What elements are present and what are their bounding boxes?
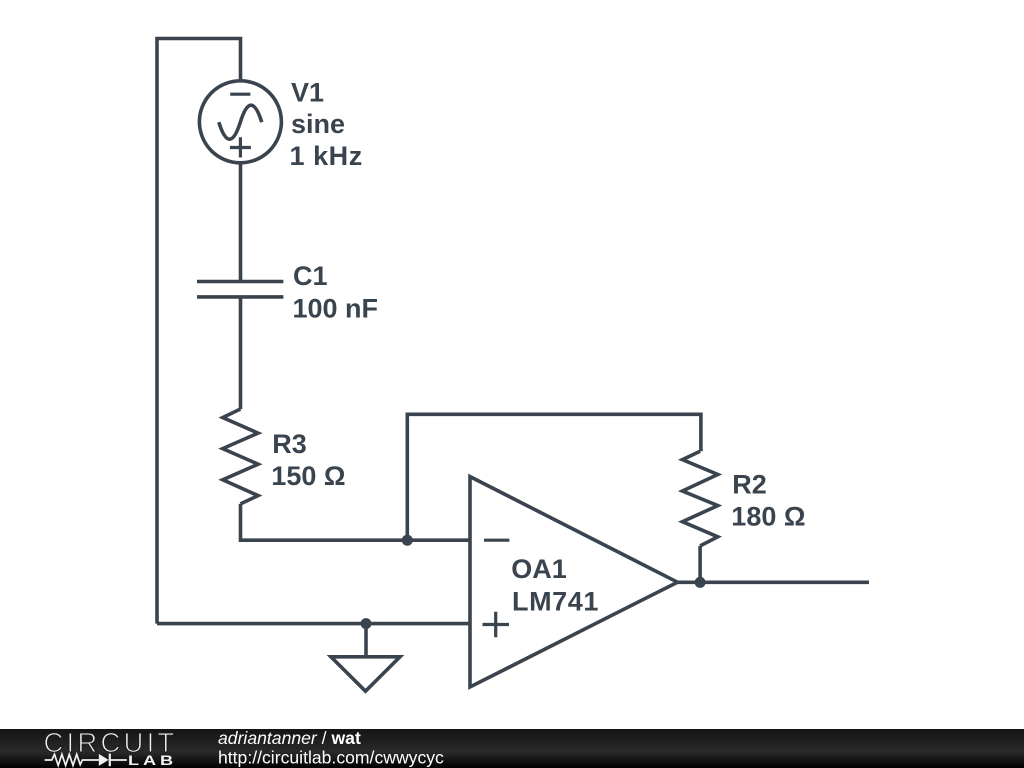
svg-text:1 kHz: 1 kHz [290, 141, 363, 171]
wire C1 bottom to R3 top [239, 298, 243, 409]
wire V1 bottom to C1 top [239, 162, 243, 280]
svg-text:LAB: LAB [128, 753, 177, 768]
footer attribution text [218, 728, 444, 768]
svg-text:R3: R3 [272, 429, 307, 459]
CircuitLab logo resistor-diode glyph [45, 754, 127, 767]
svg-text:sine: sine [291, 109, 345, 139]
svg-text:V1: V1 [291, 78, 324, 108]
op-amp inverting marker [484, 539, 509, 542]
wire output [678, 580, 870, 584]
wire non-inverting input [157, 622, 470, 626]
wire feedback loop node to R2 top [407, 414, 701, 540]
wire R2 bottom to output node [698, 546, 702, 582]
svg-text:100 nF: 100 nF [293, 293, 379, 323]
CircuitLab logo wordmark [44, 727, 178, 768]
svg-text:150 Ω: 150 Ω [271, 461, 345, 491]
svg-text:R2: R2 [732, 470, 767, 500]
svg-text:http://circuitlab.com/cwwycyc: http://circuitlab.com/cwwycyc [218, 748, 444, 768]
resistor R3 [223, 409, 258, 504]
node dot output [695, 577, 706, 588]
capacitor C1 [197, 282, 283, 297]
wire left loop from + input up over to V1 top [157, 39, 241, 624]
node dot inverting input [402, 535, 413, 546]
op-amp OA1 triangle [470, 477, 678, 687]
svg-text:LM741: LM741 [512, 587, 599, 617]
svg-text:OA1: OA1 [511, 554, 567, 584]
svg-text:adriantanner / wat: adriantanner / wat [218, 728, 361, 748]
wire R3 bottom to inverting-input node [241, 504, 471, 540]
node dot ground [361, 618, 372, 629]
svg-text:180 Ω: 180 Ω [731, 502, 805, 532]
ground [331, 624, 400, 692]
op-amp non-inverting marker [483, 612, 510, 638]
resistor R2 [682, 451, 717, 546]
voltage source V1 [199, 81, 281, 163]
svg-text:C1: C1 [293, 261, 328, 291]
